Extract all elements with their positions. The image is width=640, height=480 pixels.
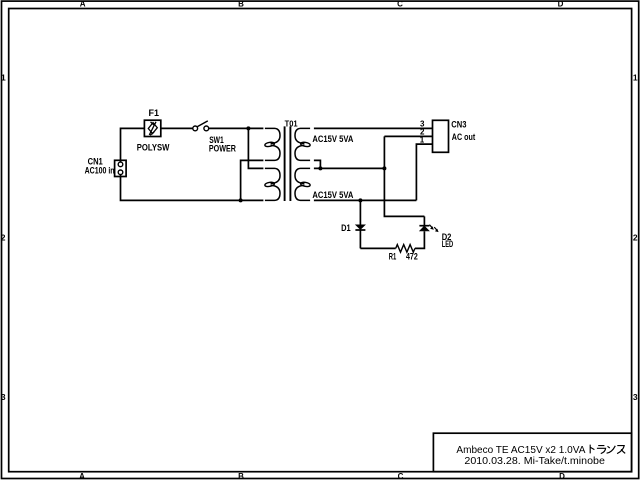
wire centre tap rail (314, 167, 385, 169)
wire R1 to D2 (415, 231, 425, 248)
wire secondary upper bottom lead jog to centre tap (314, 160, 321, 168)
wire CN3 pin2 vertical down to LED branch (384, 136, 424, 216)
svg-text:F1: F1 (149, 108, 160, 118)
svg-text:T01: T01 (285, 118, 298, 128)
wire CN3 pin 2 stub (384, 135, 432, 137)
svg-text:CN3: CN3 (451, 120, 466, 130)
svg-text:AC15V 5VA: AC15V 5VA (312, 134, 353, 144)
wire junction down to lower primary winding (248, 128, 263, 168)
svg-text:POLYSW: POLYSW (137, 142, 170, 152)
svg-text:A: A (79, 472, 85, 480)
fuse F1 (polyswitch) (144, 120, 160, 136)
connector CN1 (115, 160, 127, 176)
wire D1 to R1 (360, 247, 395, 249)
wire bottom rail up to CN3 pin 1 (416, 144, 432, 200)
node junction at top primary (246, 126, 250, 130)
wire upper primary bottom lead to bottom rail (241, 160, 264, 200)
svg-text:1: 1 (633, 72, 638, 82)
svg-text:B: B (238, 472, 244, 480)
svg-text:A: A (80, 0, 86, 9)
LED D2 (419, 216, 438, 232)
svg-text:D: D (559, 472, 565, 480)
transformer T01 secondary winding upper (295, 128, 310, 143)
svg-text:472: 472 (406, 252, 418, 262)
svg-text:1: 1 (420, 135, 425, 144)
transformer T01 primary winding upper (265, 128, 280, 143)
node junction centre tap to CN3 pin 2 (382, 166, 386, 170)
switch SW1 (193, 121, 209, 131)
svg-text:AC100 in: AC100 in (85, 166, 115, 176)
svg-text:2: 2 (633, 232, 638, 242)
svg-text:B: B (238, 0, 244, 9)
svg-text:3: 3 (1, 392, 6, 402)
svg-text:C: C (397, 0, 403, 9)
node junction on bottom rail (239, 198, 243, 202)
wire secondary bottom rail (314, 199, 417, 201)
connector CN3 (433, 120, 449, 152)
wire SW1 to primary, with junction (209, 127, 264, 129)
svg-text:R1: R1 (389, 252, 397, 262)
svg-text:LED: LED (442, 239, 454, 249)
wire CN1 pin2 down to bottom rail (121, 174, 264, 200)
svg-text:POWER: POWER (209, 143, 236, 153)
transformer T01 core (285, 126, 291, 201)
node junction D1 branch (358, 198, 362, 202)
wire F1 to SW1 (161, 127, 193, 129)
svg-text:AC out: AC out (452, 132, 475, 142)
title katakana トランス (590, 445, 625, 454)
svg-text:2010.03.28. Mi-Take/t.minobe: 2010.03.28. Mi-Take/t.minobe (464, 456, 605, 467)
svg-text:D1: D1 (341, 223, 351, 233)
resistor R1 (396, 245, 415, 253)
svg-text:Ambeco TE AC15V x2 1.0VA: Ambeco TE AC15V x2 1.0VA (456, 445, 585, 456)
transformer T01 secondary winding lower (295, 168, 310, 183)
diode D1 (355, 200, 365, 248)
svg-text:3: 3 (633, 392, 638, 402)
svg-text:AC15V 5VA: AC15V 5VA (312, 190, 353, 200)
title block box (433, 433, 631, 472)
transformer T01 primary winding lower (265, 168, 280, 183)
svg-text:D: D (558, 0, 564, 9)
svg-text:1: 1 (1, 72, 6, 82)
svg-text:2: 2 (1, 232, 6, 242)
wire CN1 pin1 up to F1 level (121, 128, 145, 162)
node junction centre tap (318, 166, 322, 170)
wire secondary top lead to CN3 pin 3 (314, 127, 433, 129)
svg-text:C: C (398, 472, 404, 480)
